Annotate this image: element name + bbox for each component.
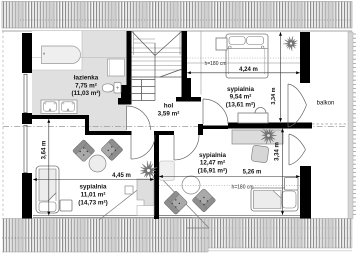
window W left wall lower bbox=[24, 125, 28, 173]
roof hatch strip top bbox=[2, 2, 352, 29]
stair break line bbox=[160, 69, 182, 77]
bathtub bbox=[42, 46, 81, 64]
dimension 3,34 m upper bbox=[280, 32, 282, 122]
h=180 dotted line TR bbox=[187, 58, 300, 63]
armchair B bbox=[100, 138, 123, 161]
svg-text:(16,91 m²): (16,91 m²) bbox=[198, 168, 227, 175]
wall stair right lower bbox=[182, 78, 192, 102]
wall balcony north bbox=[300, 32, 310, 83]
staircase bbox=[132, 31, 182, 70]
svg-text:4,45 m: 4,45 m bbox=[112, 173, 131, 179]
svg-text:12,47 m²: 12,47 m² bbox=[200, 160, 225, 167]
bathroom door arc bbox=[127, 106, 151, 130]
stair lower treads bbox=[131, 77, 182, 101]
svg-text:h=180 cm: h=180 cm bbox=[204, 61, 226, 67]
svg-text:(13,61 m²): (13,61 m²) bbox=[226, 102, 255, 109]
wall left bottom bbox=[22, 173, 32, 219]
chair right room bbox=[251, 145, 269, 163]
double sink vanity bbox=[41, 100, 77, 114]
svg-text:3,34 m: 3,34 m bbox=[275, 142, 281, 161]
eaves line top bbox=[2, 30, 352, 32]
wardrobe gray left bbox=[137, 179, 154, 206]
wall central bbox=[154, 131, 159, 219]
balcony door lower bbox=[289, 134, 306, 165]
svg-text:sypialnia: sypialnia bbox=[227, 86, 254, 93]
svg-text:11,01 m²: 11,01 m² bbox=[81, 192, 106, 199]
stair V winder lines bbox=[132, 32, 182, 101]
svg-text:3,34 m: 3,34 m bbox=[271, 87, 277, 104]
nightstand right room bbox=[285, 178, 299, 191]
svg-text:sypialnia: sypialnia bbox=[80, 184, 107, 191]
wall stair right bbox=[182, 31, 188, 78]
bathroom floor bbox=[32, 31, 127, 131]
double bed bbox=[226, 34, 268, 78]
wall bathroom south B bbox=[85, 131, 132, 135]
wall bathroom south connector bbox=[85, 115, 89, 135]
wall stair left bbox=[127, 31, 132, 105]
armchair D bbox=[192, 188, 216, 212]
h=180 dotted line BR bbox=[159, 185, 300, 187]
svg-text:h=180 cm: h=180 cm bbox=[231, 185, 253, 191]
label bedroom BR bbox=[198, 152, 227, 175]
balcony divider dashed bbox=[312, 123, 347, 125]
toilet bbox=[102, 83, 121, 94]
plant right room bbox=[261, 129, 277, 144]
roof hatch strip bottom right bbox=[208, 219, 352, 253]
valley base line bbox=[186, 227, 209, 229]
dimension 3,64 m bbox=[48, 119, 50, 216]
balcony railing bbox=[348, 32, 356, 219]
svg-text:(11,03 m²): (11,03 m²) bbox=[71, 90, 100, 97]
desk right room bbox=[232, 130, 283, 144]
balcony door upper bbox=[288, 84, 307, 127]
nightstand TR bbox=[216, 38, 227, 50]
wall stair foot bbox=[176, 97, 201, 102]
stool left room bbox=[125, 186, 133, 194]
single bed right room bbox=[251, 188, 298, 211]
dimension 4,24 m bbox=[187, 72, 300, 74]
chaise bed left room bbox=[36, 166, 59, 213]
knee wall double line right room bbox=[159, 216, 310, 218]
dimension 4,45 m bbox=[33, 179, 154, 181]
wall bedroom TR south thin bbox=[199, 126, 228, 130]
svg-text:hol: hol bbox=[164, 103, 174, 110]
round table right room bbox=[182, 176, 200, 194]
washing machine bbox=[108, 59, 125, 76]
wall left top bbox=[22, 33, 32, 73]
knee wall double line left room bbox=[33, 216, 192, 218]
chimney at stair wall bbox=[121, 85, 127, 105]
roof hatch strip bottom left bbox=[2, 219, 208, 253]
wall hall south bbox=[154, 131, 174, 135]
svg-text:3,64 m: 3,64 m bbox=[42, 141, 48, 160]
plant TR bbox=[283, 36, 297, 51]
armchair C bbox=[164, 191, 188, 215]
svg-text:7,75 m²: 7,75 m² bbox=[75, 83, 97, 90]
svg-text:9,54 m²: 9,54 m² bbox=[230, 94, 252, 101]
round table left room bbox=[89, 155, 106, 172]
dimension 5,26 m bbox=[159, 176, 300, 178]
nightstand left room bbox=[60, 200, 72, 211]
ridge dash-dot line bbox=[3, 126, 346, 128]
svg-text:5,26 m: 5,26 m bbox=[243, 170, 262, 176]
wall bedroom south main bbox=[228, 123, 312, 129]
desk TR bbox=[238, 113, 268, 123]
wall right room east bbox=[300, 166, 311, 219]
plant left room bbox=[140, 161, 157, 179]
label bedroom BL bbox=[78, 184, 107, 207]
roof edge dashed left bbox=[2, 31, 4, 218]
wall bathroom south A bbox=[22, 115, 89, 119]
wall left mid bbox=[22, 113, 32, 124]
svg-text:4,24 m: 4,24 m bbox=[239, 67, 258, 73]
right room door arc bbox=[174, 135, 199, 160]
left room door arc bbox=[131, 135, 155, 159]
cabinet below wardrobe bbox=[137, 206, 154, 216]
chair TR bbox=[255, 108, 266, 113]
armchair A bbox=[72, 139, 95, 162]
label hall bbox=[158, 103, 180, 118]
chimney foot bbox=[118, 98, 121, 105]
window W left wall upper bbox=[24, 74, 28, 113]
bedroom TR door arc bbox=[203, 99, 228, 124]
dimension 3,34 m lower bbox=[282, 129, 284, 216]
thin line bedroom TR bbox=[200, 31, 202, 95]
svg-text:3,59 m²: 3,59 m² bbox=[158, 111, 180, 118]
svg-text:sypialnia: sypialnia bbox=[199, 152, 226, 159]
label bathroom bbox=[71, 75, 100, 98]
wardrobe gray right bbox=[160, 161, 175, 181]
label bedroom TR bbox=[226, 86, 255, 109]
svg-text:łazienka: łazienka bbox=[74, 75, 99, 82]
svg-text:(14,73 m²): (14,73 m²) bbox=[78, 200, 107, 207]
wall stub bedroom doors bbox=[198, 124, 203, 135]
svg-text:balkon: balkon bbox=[317, 101, 335, 107]
roof valley diagonal bbox=[99, 177, 154, 220]
roof valley diagonal right bbox=[159, 176, 209, 228]
